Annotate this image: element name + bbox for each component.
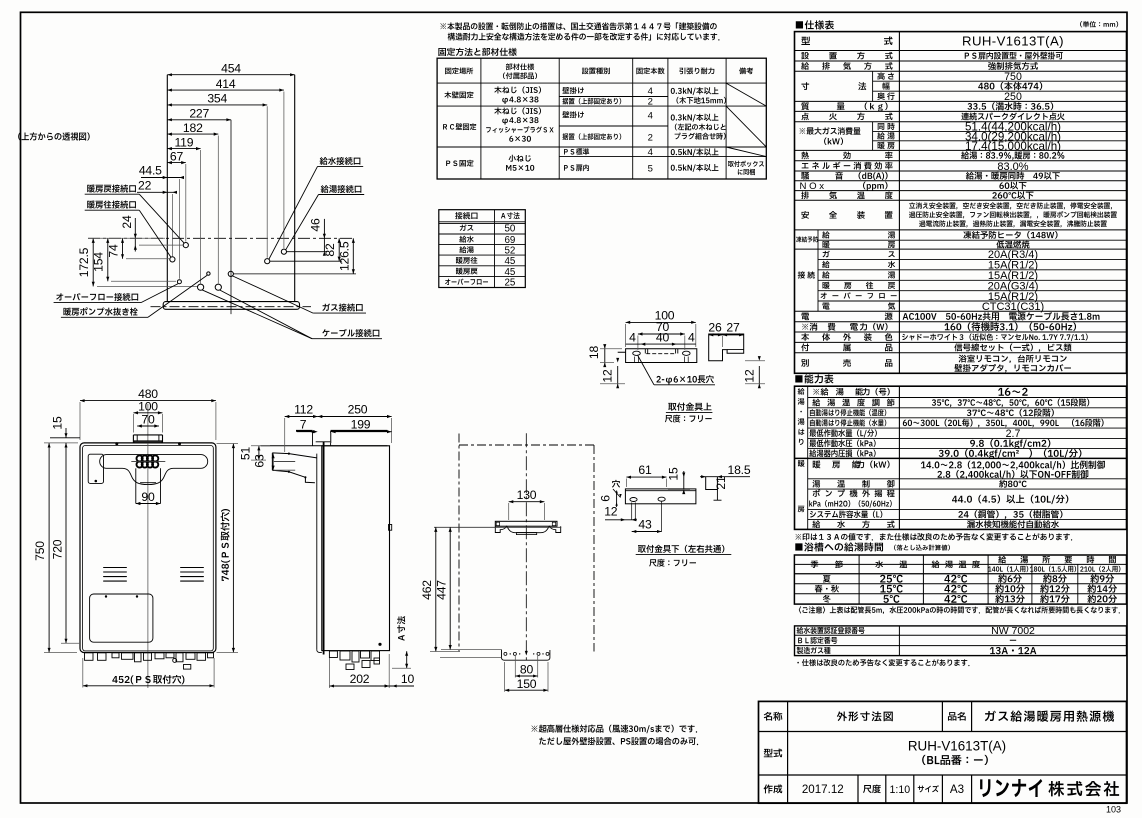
svg-text:199: 199	[351, 418, 371, 432]
spec row 本体外装色	[801, 333, 809, 341]
capability table title 能力表	[795, 374, 833, 383]
front centerline	[147, 404, 149, 688]
fixing row PS固定	[446, 160, 473, 167]
svg-text:202: 202	[350, 672, 370, 686]
spec row 別売品	[801, 359, 809, 367]
plan line to ガス	[233, 273, 356, 275]
svg-text:130: 130	[517, 488, 537, 502]
fixing 備考 取付ボックス	[728, 161, 764, 167]
暖房ポンプ水抜き栓 port	[207, 272, 210, 275]
bracket-top drawing	[618, 349, 697, 363]
revision note	[797, 659, 969, 666]
group label 給湯・湯はり	[798, 388, 805, 395]
label 暖房戻接続口	[87, 184, 136, 192]
plan front panel	[163, 302, 299, 310]
svg-text:2: 2	[648, 133, 653, 144]
highrise note	[531, 725, 697, 734]
front grille	[137, 455, 159, 467]
rear ref line	[434, 526, 561, 528]
svg-text:462: 462	[420, 580, 434, 600]
svg-text:RUH-V1613T(A): RUH-V1613T(A)	[962, 34, 1064, 49]
unit note 単位mm	[1080, 21, 1118, 27]
front grille line	[131, 460, 165, 462]
fixing row RC壁固定	[443, 123, 476, 130]
spec table grid	[795, 32, 1127, 374]
svg-text:5: 5	[648, 163, 653, 174]
svg-text:63: 63	[253, 454, 267, 468]
spec row 凍結予防	[796, 236, 818, 242]
spec row エネルギー消費効率	[802, 163, 809, 168]
bath table grid	[794, 555, 1126, 604]
plan extension line	[185, 164, 187, 242]
connection size table	[439, 210, 526, 288]
svg-text:354: 354	[207, 92, 227, 106]
svg-text:4: 4	[648, 147, 653, 158]
side bottom fittings	[329, 651, 337, 658]
label 給湯接続口	[321, 185, 362, 193]
spec row 型式	[801, 37, 810, 45]
svg-text:CTC31(C31): CTC31(C31)	[982, 301, 1044, 313]
front top screws	[115, 442, 118, 445]
svg-text:227: 227	[189, 107, 209, 121]
spec row 点火方式	[801, 113, 808, 121]
svg-text:RUH-V1613T(A): RUH-V1613T(A)	[908, 739, 1006, 754]
spec row 接続	[798, 271, 805, 278]
registration table	[795, 626, 1127, 656]
svg-text:4: 4	[688, 331, 695, 345]
svg-text:182: 182	[183, 121, 203, 135]
plan centerline	[88, 237, 353, 239]
plan center vertical	[230, 120, 232, 314]
svg-text:90: 90	[141, 490, 155, 504]
logo リンナイ株式会社	[980, 779, 1042, 797]
fixing table headers	[445, 68, 473, 75]
svg-text:45: 45	[504, 256, 515, 267]
side front plate	[316, 454, 318, 650]
svg-text:454: 454	[221, 62, 241, 76]
plan left ref tick	[88, 237, 165, 239]
svg-text:70: 70	[141, 413, 155, 427]
label オーバーフロー接続口	[56, 293, 138, 301]
svg-text:103: 103	[1106, 805, 1121, 815]
plan view label 上方からの透視図	[18, 132, 89, 140]
svg-text:172.5: 172.5	[77, 247, 91, 277]
svg-text:447: 447	[434, 580, 448, 600]
bath table title	[795, 542, 883, 551]
svg-text:126.5: 126.5	[338, 241, 352, 271]
title 型式	[764, 749, 782, 758]
svg-text:12: 12	[604, 505, 618, 519]
label 暖房ポンプ水抜き栓	[63, 307, 137, 315]
fixing row 木壁固定	[444, 91, 473, 98]
spec row 消費電力	[802, 323, 817, 331]
svg-text:21: 21	[714, 476, 728, 490]
bracket-top side profile	[709, 334, 744, 361]
spec row 設置方式	[801, 52, 808, 59]
暖房往接続口 port	[170, 257, 175, 262]
spec row 付属品	[801, 343, 809, 351]
bath note	[799, 606, 1120, 614]
side dim A寸法	[397, 616, 405, 641]
svg-text:61: 61	[638, 463, 652, 477]
cap row 暖房能力	[813, 460, 821, 468]
給湯接続口 port	[281, 249, 286, 254]
bath rows	[823, 575, 831, 582]
compliance note	[440, 22, 716, 30]
svg-text:83.0%: 83.0%	[997, 161, 1028, 173]
front access panel	[90, 594, 153, 642]
rear bottom extension	[440, 657, 502, 659]
label ガス接続口	[322, 303, 362, 311]
spec row 安全装置	[801, 211, 809, 219]
front sticker	[88, 454, 103, 483]
svg-text:18: 18	[587, 346, 601, 360]
front bottom fittings	[85, 653, 94, 661]
label ケーブル接続口	[322, 329, 379, 337]
svg-text:69: 69	[504, 235, 515, 246]
spec table title 仕様表	[796, 20, 834, 29]
front exhaust lower box	[135, 468, 137, 503]
svg-text:15: 15	[51, 416, 65, 430]
svg-text:15: 15	[667, 467, 681, 481]
svg-text:N O x: N O x	[800, 181, 825, 192]
spec row 排気温度	[801, 192, 809, 200]
svg-text:17.4(15,000kcal/h): 17.4(15,000kcal/h)	[965, 140, 1061, 153]
title 名称	[764, 712, 783, 721]
plan extension line	[217, 136, 219, 284]
front vent slats	[104, 568, 204, 582]
cap row 給湯温度調節	[812, 399, 820, 407]
svg-text:7: 7	[300, 418, 307, 432]
plan extension line	[200, 150, 202, 284]
front view body	[80, 443, 216, 653]
bracket-bot 穴 label	[612, 480, 620, 488]
spec row 騒音	[801, 172, 809, 179]
spec row 熱効率	[801, 152, 809, 160]
cap row 給水方式	[812, 520, 820, 528]
svg-text:44.5: 44.5	[139, 164, 162, 178]
svg-text:45: 45	[504, 267, 515, 278]
title 作成	[764, 784, 783, 793]
bracket-bot caption	[638, 545, 724, 553]
side view body	[322, 446, 390, 651]
side right clip	[389, 525, 392, 531]
暖房戻接続口 port	[183, 243, 188, 248]
side body top line	[261, 445, 388, 447]
plan body left edge	[166, 75, 168, 302]
spec row 寸法	[801, 82, 809, 90]
svg-text:250: 250	[1004, 91, 1022, 103]
cap row 自動湯はり停止水量	[810, 419, 886, 426]
bracket-top slots	[633, 351, 641, 355]
note 13A	[796, 533, 1073, 540]
svg-text:80: 80	[520, 663, 534, 677]
svg-text:12: 12	[601, 369, 615, 383]
fixing table grid	[437, 58, 766, 179]
cap row 給湯能力	[813, 388, 828, 396]
bracket-bot side profile	[706, 477, 718, 490]
svg-text:250: 250	[348, 403, 368, 417]
cap row システム許容水量	[810, 510, 882, 518]
svg-text:750: 750	[33, 541, 47, 561]
spec row 電源	[801, 313, 809, 320]
svg-text:NW 7002: NW 7002	[991, 625, 1035, 637]
title block	[759, 701, 1127, 803]
svg-text:24: 24	[120, 215, 134, 229]
svg-text:6: 6	[599, 495, 613, 502]
bath header 季節	[811, 561, 819, 568]
ガス接続口 port	[228, 271, 233, 276]
svg-text:4: 4	[648, 110, 653, 121]
svg-text:100: 100	[138, 399, 158, 413]
svg-text:52: 52	[504, 245, 515, 256]
svg-text:414: 414	[216, 77, 236, 91]
svg-text:150: 150	[517, 677, 537, 691]
fixing 備考 diagonal 1	[726, 83, 766, 106]
svg-text:25: 25	[504, 278, 515, 289]
front exhaust opening	[100, 455, 208, 485]
label 給水接続口	[320, 157, 361, 165]
front exhaust duct	[132, 435, 134, 443]
fixing table title	[438, 48, 516, 56]
svg-text:4: 4	[648, 86, 653, 97]
fixing 備考 diagonal 2	[726, 106, 766, 147]
spec row 最大ガス消費量	[800, 127, 861, 135]
cap row 最低作動水圧	[809, 439, 875, 447]
front dim 452	[112, 675, 184, 685]
rear bottom bracket	[502, 650, 550, 660]
cap row 給湯器内圧損	[809, 449, 875, 457]
svg-text:119: 119	[174, 135, 193, 149]
svg-text:43: 43	[638, 518, 652, 532]
svg-text:74: 74	[106, 244, 120, 258]
plan line to 給湯	[287, 251, 328, 253]
side bottom screw	[378, 643, 381, 646]
svg-text:27: 27	[726, 321, 740, 335]
spec row 給排気方式	[801, 62, 809, 70]
svg-text:2: 2	[648, 97, 653, 108]
side top bracket	[296, 430, 313, 432]
front dim 748	[221, 509, 231, 581]
svg-text:750: 750	[1004, 71, 1022, 83]
rear view phantom outline	[459, 444, 594, 446]
svg-text:112: 112	[294, 403, 313, 417]
bracket-bot drawing	[625, 489, 696, 504]
plan body right edge	[294, 75, 296, 302]
side duct profile	[272, 453, 317, 458]
svg-text:12: 12	[743, 369, 757, 383]
cap row 自動湯はり停止温度	[810, 409, 886, 416]
svg-text:10: 10	[401, 672, 415, 686]
label 暖房往接続口	[87, 200, 136, 208]
svg-text:A3: A3	[950, 783, 964, 796]
bracket-top caption	[668, 402, 711, 410]
svg-text:2017.12: 2017.12	[802, 783, 844, 796]
spec row 質量	[801, 102, 809, 110]
cap row 最低作動水量	[809, 429, 876, 437]
cap row ポンプ機外揚程	[813, 489, 821, 497]
svg-text:26: 26	[708, 321, 722, 335]
svg-text:82: 82	[323, 243, 337, 257]
fixing 備考 diagonal 3	[726, 147, 766, 157]
svg-text:51: 51	[239, 447, 253, 461]
ケーブル接続口 port 1	[198, 284, 204, 290]
group label 暖房	[798, 460, 805, 467]
capability table grid	[795, 386, 1127, 529]
svg-text:2.7: 2.7	[1006, 428, 1021, 440]
ケーブル接続口 port 2	[215, 284, 221, 290]
rear top bracket	[495, 521, 557, 526]
plan extension line	[283, 92, 285, 249]
svg-text:1:10: 1:10	[889, 784, 910, 796]
svg-text:18.5: 18.5	[728, 463, 751, 477]
svg-text:40: 40	[656, 331, 670, 345]
plan extension line	[266, 106, 268, 257]
svg-text:46: 46	[308, 218, 322, 232]
給水接続口 port	[265, 259, 270, 264]
svg-text:720: 720	[50, 539, 64, 559]
plan line to 給水	[270, 260, 342, 262]
svg-text:22: 22	[138, 179, 152, 193]
svg-text:4: 4	[629, 331, 636, 345]
rear centerline	[525, 433, 527, 662]
cap row 湯温制御	[812, 480, 820, 488]
bracket-top hole label	[656, 375, 713, 384]
svg-text:50: 50	[504, 224, 515, 235]
オーバーフロー接続口 port	[177, 280, 181, 284]
